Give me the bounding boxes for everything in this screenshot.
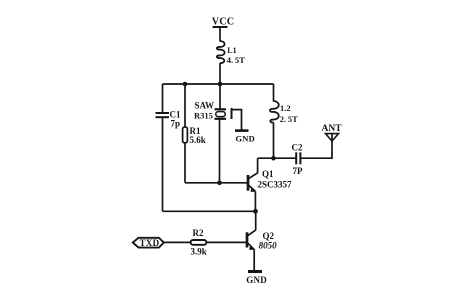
transistor Q1 2SC3357 — [248, 169, 292, 192]
svg-text:R2: R2 — [193, 228, 204, 238]
ground (Q2) — [246, 272, 267, 285]
wire Q2 emitter down — [253, 249, 255, 270]
inductor L2 1.2/2.5T — [270, 101, 298, 124]
svg-text:7P: 7P — [293, 166, 304, 176]
wire C2 to antenna riser — [300, 141, 332, 158]
svg-text:2. 5T: 2. 5T — [280, 114, 298, 124]
input flag TXD — [133, 238, 164, 248]
wire rail right corner down to L2 — [273, 84, 275, 102]
wire collector line to C2 — [258, 157, 296, 159]
wire C1 to bottom-left corner — [162, 117, 164, 211]
wire rail to SAW — [219, 84, 221, 109]
resistor R1 — [183, 126, 206, 145]
svg-text:VCC: VCC — [212, 17, 234, 28]
wire L1 to top rail — [219, 63, 221, 85]
ground (SAW) — [235, 131, 255, 144]
wire Q1 collector up — [257, 158, 259, 173]
wire TXD to R2 — [164, 241, 191, 243]
svg-text:SAW: SAW — [195, 101, 215, 111]
power VCC bar — [213, 26, 228, 28]
inductor L1 — [217, 41, 245, 65]
antenna ANT — [322, 124, 343, 141]
svg-text:4. 5T: 4. 5T — [227, 55, 245, 65]
svg-text:ANT: ANT — [322, 124, 343, 134]
svg-text:GND: GND — [236, 134, 256, 144]
wire top rail — [163, 83, 274, 85]
wire VCC to L1 — [219, 27, 221, 42]
wire SAW case to ground — [232, 110, 242, 130]
wire bottom-left horizontal to emitter node — [163, 210, 256, 212]
node junction emitter/Q2 collector — [253, 209, 258, 214]
node junction R1/rail — [183, 82, 188, 87]
node junction VCC/rail — [218, 82, 223, 87]
svg-text:GND: GND — [246, 275, 267, 285]
svg-text:C2: C2 — [292, 143, 303, 153]
node junction L2/collector line — [271, 156, 276, 161]
svg-text:7p: 7p — [171, 119, 181, 129]
wire rail to R1 — [184, 84, 186, 127]
resistor R2 — [191, 228, 207, 257]
wire R2 to Q2 base — [206, 241, 247, 243]
SAW resonator R315 — [194, 101, 226, 121]
svg-text:L1: L1 — [227, 46, 236, 55]
transistor Q2 8050 — [247, 230, 277, 251]
wire L2 to collector node — [273, 123, 275, 159]
wire node to Q2 collector — [255, 211, 257, 230]
capacitor C2 — [292, 143, 304, 177]
svg-text:2SC3357: 2SC3357 — [258, 180, 293, 190]
svg-text:TXD: TXD — [140, 238, 160, 248]
wire rail to C1 — [162, 84, 164, 112]
node junction SAW/base line — [217, 181, 222, 186]
wire Q1 emitter to node — [254, 191, 256, 211]
SAW case electrode — [231, 108, 233, 119]
wire Q1 base line — [185, 182, 247, 184]
capacitor C1 — [156, 110, 181, 129]
svg-text:1.2: 1.2 — [280, 103, 291, 113]
svg-text:5.6k: 5.6k — [190, 135, 206, 145]
wire R1 to base line — [184, 143, 186, 183]
svg-text:8050: 8050 — [259, 240, 278, 250]
svg-text:R315: R315 — [194, 111, 213, 121]
svg-text:3.9k: 3.9k — [191, 247, 207, 257]
svg-text:Q1: Q1 — [262, 169, 274, 179]
power VCC label — [212, 17, 234, 28]
wire SAW to base line — [219, 119, 221, 183]
